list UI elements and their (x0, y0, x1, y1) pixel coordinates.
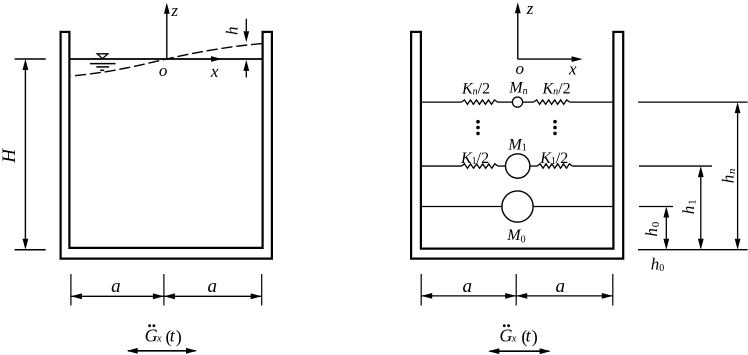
svg-text:H: H (0, 148, 20, 164)
svg-text:hn: hn (718, 168, 738, 183)
svg-text:x: x (210, 62, 219, 81)
svg-text:Kn/2: Kn/2 (461, 80, 490, 97)
svg-text:z: z (170, 1, 178, 20)
svg-text:x: x (568, 60, 577, 79)
svg-text:z: z (526, 0, 534, 18)
svg-text:M1: M1 (507, 136, 526, 153)
svg-text:K1/2: K1/2 (460, 150, 489, 167)
svg-text:t: t (170, 325, 176, 345)
svg-text:a: a (555, 276, 565, 297)
svg-text:h1: h1 (679, 199, 699, 214)
svg-text:K1/2: K1/2 (539, 150, 568, 167)
svg-text:a: a (462, 276, 472, 297)
svg-text:M0: M0 (506, 227, 525, 246)
svg-text:Mn: Mn (508, 80, 527, 97)
svg-text:a: a (111, 276, 121, 297)
svg-text:h0: h0 (651, 254, 665, 274)
svg-text:t: t (526, 325, 532, 345)
svg-text:o: o (159, 61, 168, 80)
svg-text:): ) (176, 327, 182, 348)
svg-text:a: a (208, 276, 218, 297)
svg-text:x: x (511, 334, 517, 345)
svg-text:h: h (222, 27, 241, 36)
svg-text:G: G (145, 325, 158, 345)
svg-text:o: o (516, 59, 525, 78)
svg-text:): ) (532, 327, 538, 348)
svg-text:Kn/2: Kn/2 (542, 80, 571, 97)
svg-text:G: G (499, 325, 512, 345)
svg-text:x: x (156, 334, 162, 345)
svg-text:h0: h0 (642, 221, 662, 236)
